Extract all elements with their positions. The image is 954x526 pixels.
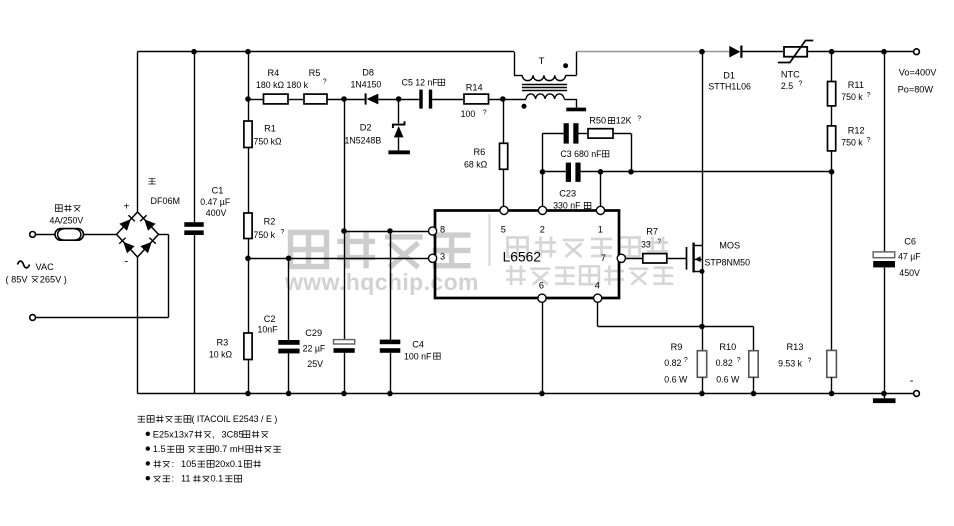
svg-text:R13: R13 xyxy=(787,342,804,352)
watermark slogan line2 xyxy=(506,265,673,285)
svg-text:-: - xyxy=(125,256,129,268)
svg-text:MOS: MOS xyxy=(719,240,740,250)
resistor R50 12K xyxy=(588,129,613,138)
svg-text:10 kΩ: 10 kΩ xyxy=(209,350,233,360)
watermark divider xyxy=(489,214,491,266)
node AC input neutral terminal xyxy=(30,315,36,321)
svg-text:100 nF: 100 nF xyxy=(404,351,432,361)
resistor R2 750k xyxy=(244,213,252,239)
svg-text:,: , xyxy=(212,429,215,439)
capacitor C5 12nF xyxy=(399,99,420,101)
pin 4 L6562 xyxy=(594,294,602,302)
wire R7 to gate xyxy=(667,258,686,260)
wire fuse to bridge xyxy=(36,234,56,236)
node Vo output terminal xyxy=(914,49,920,55)
svg-text:D1: D1 xyxy=(723,71,735,81)
svg-text:R12: R12 xyxy=(848,126,865,136)
wire pin4 down and right xyxy=(597,302,599,326)
ground D2 xyxy=(388,150,410,154)
svg-text:25V: 25V xyxy=(307,359,323,369)
resistor R3 10k xyxy=(244,333,252,360)
junction divider top xyxy=(829,49,835,55)
capacitor C29 22uF xyxy=(334,340,355,344)
label VAC source xyxy=(18,261,30,268)
junction divider mid xyxy=(829,169,835,175)
svg-text:100: 100 xyxy=(461,109,476,119)
svg-text::: : xyxy=(172,474,175,484)
svg-text:?: ? xyxy=(281,229,285,236)
svg-text:D2: D2 xyxy=(360,122,372,132)
capacitor C1 xyxy=(194,52,196,223)
svg-text:11: 11 xyxy=(181,474,191,484)
svg-text:2.5: 2.5 xyxy=(781,81,793,91)
ground secondary xyxy=(566,108,586,112)
svg-text:R10: R10 xyxy=(719,342,736,352)
watermark hqchip logo text xyxy=(291,231,471,269)
svg-text:20x0.1: 20x0.1 xyxy=(215,459,243,469)
svg-text:C23: C23 xyxy=(559,189,576,199)
svg-text:4A/250V: 4A/250V xyxy=(50,215,84,225)
svg-text:R2: R2 xyxy=(264,217,276,227)
svg-text:C2: C2 xyxy=(264,314,276,324)
svg-text:VAC: VAC xyxy=(36,262,55,272)
svg-text:R11: R11 xyxy=(848,80,864,90)
junction R2/R3 pin3 xyxy=(245,255,251,261)
pin 6 L6562 xyxy=(538,294,546,302)
pin 5 L6562 xyxy=(500,206,508,214)
pin 7 L6562 xyxy=(617,254,625,262)
junction R5/D8 node xyxy=(341,96,347,102)
wire C4 column xyxy=(390,231,392,340)
transistor Q1 MOS STP8NM50 xyxy=(686,247,688,270)
svg-text:750 kΩ: 750 kΩ xyxy=(254,136,283,146)
svg-text:265V ): 265V ) xyxy=(40,275,67,285)
diode D1 STTH1L06 xyxy=(729,46,740,58)
svg-text:0.6 W: 0.6 W xyxy=(716,375,740,385)
watermark slogan line1 xyxy=(508,237,669,258)
svg-text:5: 5 xyxy=(501,224,506,234)
op-amp U1 L6562 controller xyxy=(435,211,619,299)
capacitor C6 47uF xyxy=(884,52,886,252)
svg-text:DF06M: DF06M xyxy=(151,196,181,206)
note inductor specification xyxy=(138,415,191,422)
resistor R1 750k xyxy=(244,121,252,148)
wire top rail gray segment xyxy=(577,51,730,53)
wire bottom rail xyxy=(138,393,914,395)
svg-text:6: 6 xyxy=(539,280,544,290)
wire pin7 to R7 xyxy=(625,258,642,260)
junction R14/ZCD node xyxy=(500,96,506,102)
svg-text:C5 12 nF: C5 12 nF xyxy=(402,78,439,88)
junction R50 right xyxy=(628,169,634,175)
junction source row xyxy=(699,324,705,330)
svg-text:?: ? xyxy=(799,81,803,88)
resistor R4 180k xyxy=(264,94,289,104)
ground output xyxy=(873,398,896,403)
phase dot primary xyxy=(563,63,568,68)
transformer secondary xyxy=(526,94,564,99)
svg-text:47 µF: 47 µF xyxy=(898,252,921,262)
resistor R7 33 xyxy=(643,254,667,263)
pin 3 L6562 xyxy=(429,254,437,262)
wire pin6 down xyxy=(542,302,544,393)
capacitor C2 10nF xyxy=(278,340,299,345)
resistor R12 750k xyxy=(828,126,836,151)
svg-text:450V: 450V xyxy=(899,268,920,278)
bridge rectifier DF06M xyxy=(117,212,159,257)
svg-text:9.53 k: 9.53 k xyxy=(778,359,803,369)
svg-text:R3: R3 xyxy=(217,338,229,348)
svg-text:?: ? xyxy=(483,110,487,117)
svg-text:0.7 mH: 0.7 mH xyxy=(215,444,245,454)
wire C2 column xyxy=(288,258,290,340)
svg-text:( 85V: ( 85V xyxy=(6,275,29,285)
wire C29 column xyxy=(344,99,346,340)
diode D8 1N4150 xyxy=(365,93,367,104)
svg-text:12K: 12K xyxy=(616,116,632,126)
svg-text:?: ? xyxy=(867,92,871,99)
resistor R9 0.82 xyxy=(702,327,704,351)
svg-text:R4: R4 xyxy=(268,68,280,78)
svg-text:105: 105 xyxy=(181,459,196,469)
transformer T boost inductor xyxy=(514,52,516,76)
svg-text:0.47 µF: 0.47 µF xyxy=(200,197,231,207)
svg-text:NTC: NTC xyxy=(781,70,800,80)
svg-text:1N4150: 1N4150 xyxy=(351,80,382,90)
svg-text::: : xyxy=(172,459,175,469)
wire pin2 riser xyxy=(542,133,544,206)
svg-text:STP8NM50: STP8NM50 xyxy=(705,257,751,267)
wire feedback row172 to divider xyxy=(631,171,832,173)
node AC input line terminal xyxy=(30,232,36,238)
zener diode D2 1N5248B xyxy=(398,99,400,123)
svg-text:68 kΩ: 68 kΩ xyxy=(464,159,488,169)
pin 1 L6562 xyxy=(596,206,604,214)
svg-text:D8: D8 xyxy=(362,67,374,77)
svg-text:C6: C6 xyxy=(904,237,916,247)
svg-text:C1: C1 xyxy=(212,185,224,195)
svg-text:7: 7 xyxy=(601,253,606,263)
wire top rail NTC to output xyxy=(807,51,913,53)
wire pin3 row xyxy=(248,258,429,260)
svg-text:33: 33 xyxy=(641,239,651,249)
svg-text:1: 1 xyxy=(598,224,603,234)
svg-text:STTH1L06: STTH1L06 xyxy=(708,81,751,91)
wire bridge plus to top rail xyxy=(137,52,139,213)
wire top rail D1 to NTC xyxy=(742,51,784,53)
resistor R6 68k xyxy=(503,99,505,143)
svg-text:E25x13x7: E25x13x7 xyxy=(153,429,194,439)
capacitor C4 100nF xyxy=(380,340,401,345)
svg-text:-: - xyxy=(910,375,914,387)
pin 8 L6562 xyxy=(429,227,437,235)
svg-text:180 kΩ 180 k: 180 kΩ 180 k xyxy=(256,80,309,90)
svg-text:?: ? xyxy=(808,358,812,365)
wire row99 xyxy=(248,99,264,101)
junction row99 left xyxy=(245,96,251,102)
resistor R13 9.53k xyxy=(831,172,833,351)
svg-text:?: ? xyxy=(637,115,641,122)
junction C6 top xyxy=(881,49,887,55)
wire pin1 riser xyxy=(600,172,602,207)
node output return terminal xyxy=(914,391,920,397)
resistor R10 0.82 xyxy=(753,327,755,351)
wire pin8 row xyxy=(344,231,429,233)
svg-text:C4: C4 xyxy=(412,340,424,350)
svg-text:R1: R1 xyxy=(264,124,276,134)
svg-text:+: + xyxy=(124,202,130,213)
capacitor C23 330nF xyxy=(543,171,566,173)
svg-text:1.5: 1.5 xyxy=(153,444,166,454)
svg-text:0.6 W: 0.6 W xyxy=(664,375,688,385)
junction MOS source-body xyxy=(700,269,705,274)
svg-text:R7: R7 xyxy=(646,227,658,237)
phase dot secondary xyxy=(522,104,527,109)
junction C6 bottom xyxy=(881,391,887,397)
svg-text:( ITACOIL E2543 / E ): ( ITACOIL E2543 / E ) xyxy=(192,414,278,424)
thermistor NTC 2.5 xyxy=(784,47,807,57)
svg-text:0.82: 0.82 xyxy=(664,358,681,368)
svg-text:?: ? xyxy=(867,137,871,144)
svg-text:750 k: 750 k xyxy=(841,138,863,148)
junction C1 top xyxy=(191,49,197,55)
svg-text:?: ? xyxy=(657,239,661,246)
svg-text:R14: R14 xyxy=(466,83,483,93)
wire top rail xyxy=(138,51,515,53)
wire neutral to bridge xyxy=(36,317,169,319)
fuse F1 4A/250V xyxy=(55,229,84,241)
junction drain top xyxy=(699,49,705,55)
svg-text:8: 8 xyxy=(440,224,445,234)
junction pin8 wire left xyxy=(341,228,347,234)
resistor R11 750k xyxy=(831,52,833,82)
wire bridge minus to bottom rail xyxy=(137,257,139,394)
junction C23 pin1 xyxy=(598,169,604,175)
junction C23 left pin2 xyxy=(540,169,546,175)
svg-text:0.1: 0.1 xyxy=(211,474,224,484)
svg-text:C3 680 nF: C3 680 nF xyxy=(560,149,602,159)
svg-text:Po=80W: Po=80W xyxy=(898,84,934,94)
transformer core xyxy=(522,84,567,86)
svg-text:?: ? xyxy=(323,79,327,86)
wire R-chain top xyxy=(248,52,250,121)
capacitor C3 680nF xyxy=(543,133,564,135)
resistor R14 100 xyxy=(464,94,489,104)
svg-text:Vo=400V: Vo=400V xyxy=(899,67,937,77)
svg-text:4: 4 xyxy=(595,280,600,290)
svg-text:?: ? xyxy=(684,357,688,364)
svg-text:L6562: L6562 xyxy=(503,250,541,265)
pin 2 L6562 xyxy=(538,206,546,214)
svg-text:C29: C29 xyxy=(305,328,322,338)
svg-text:10nF: 10nF xyxy=(258,324,279,334)
svg-text:R50: R50 xyxy=(589,116,606,126)
svg-text:750 k: 750 k xyxy=(254,230,276,240)
svg-text:R6: R6 xyxy=(474,147,486,157)
svg-text:1N5248B: 1N5248B xyxy=(345,135,382,145)
svg-text:3C85: 3C85 xyxy=(222,429,244,439)
junction pin8 wire C4 xyxy=(387,228,393,234)
svg-text:3: 3 xyxy=(440,252,445,262)
junction D8/D2 node xyxy=(396,96,402,102)
svg-text:R9: R9 xyxy=(671,342,683,352)
resistor R5 180k xyxy=(304,94,327,104)
svg-text:22 µF: 22 µF xyxy=(303,343,326,353)
svg-text:750 k: 750 k xyxy=(841,92,863,102)
svg-text:www.hqchip.com: www.hqchip.com xyxy=(284,269,479,295)
svg-text:400V: 400V xyxy=(206,208,227,218)
svg-text:R5: R5 xyxy=(309,68,321,78)
svg-text:0.82: 0.82 xyxy=(716,358,733,368)
svg-text:T: T xyxy=(539,56,545,67)
svg-text:?: ? xyxy=(737,357,741,364)
svg-text:2: 2 xyxy=(540,224,545,234)
